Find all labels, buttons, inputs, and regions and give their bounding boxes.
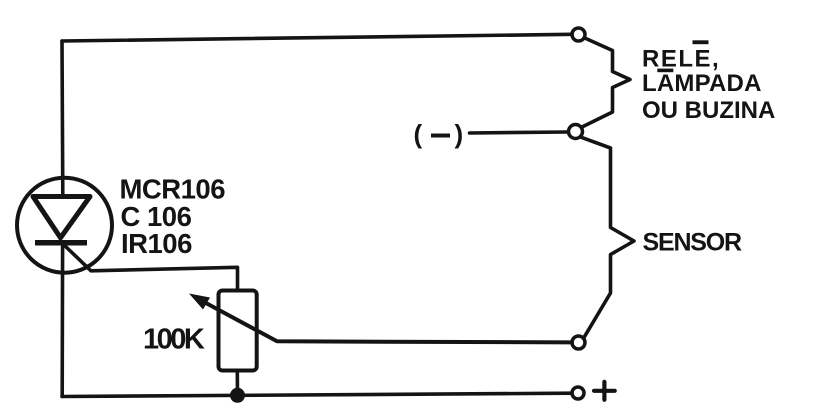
svg-text:SENSOR: SENSOR <box>643 229 743 257</box>
svg-text:RELE,: RELE, <box>642 46 720 73</box>
label + <box>594 382 615 400</box>
wire: (-) terminal lead <box>470 132 568 133</box>
svg-text:100K: 100K <box>143 324 205 356</box>
wire: top rail from SCR anode to relay terminal <box>62 34 572 41</box>
potentiometer R1 body <box>219 291 257 371</box>
svg-text:(: ( <box>414 119 423 149</box>
terminal: (-) negative supply <box>569 125 583 139</box>
junction dot on bottom rail <box>230 388 245 403</box>
svg-text:OU BUZINA: OU BUZINA <box>642 97 775 124</box>
SCR cathode bar <box>35 240 87 246</box>
potentiometer wiper arrow head <box>189 294 210 310</box>
wire: bottom rail to + terminal <box>62 393 572 396</box>
terminal: relay output (top) <box>572 28 585 41</box>
brace: sensor group <box>581 137 634 338</box>
svg-text:LAMPADA: LAMPADA <box>642 70 762 97</box>
terminal: sensor (bottom) <box>572 336 585 349</box>
brace: relay group <box>582 38 630 127</box>
wire: potentiometer bottom lead <box>236 371 240 397</box>
SCR anode-cathode triangle <box>33 197 90 238</box>
wire: wiper arrow shaft and lead to sensor terminal <box>205 303 572 343</box>
svg-text:IR106: IR106 <box>121 228 192 259</box>
SCR MCR106/C106/IR106: envelope circle <box>17 178 112 273</box>
wire: left vertical from top rail to SCR anode <box>60 41 64 197</box>
wire: gate lead from SCR to potentiometer top <box>63 244 238 291</box>
terminal: + positive supply <box>572 387 584 399</box>
svg-text:MCR106: MCR106 <box>120 174 226 205</box>
svg-text:): ) <box>455 119 464 149</box>
wire: cathode vertical down to bottom rail <box>60 245 64 397</box>
